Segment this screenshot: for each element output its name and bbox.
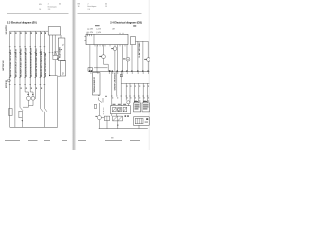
pin labels above y77 ticks — [10, 75, 46, 76]
F3 internal text — [134, 101, 149, 109]
wire R2 — [96, 45, 98, 73]
svg-text:14: 14 — [39, 9, 41, 11]
relay box K1 — [58, 38, 65, 61]
fuse box F2 — [19, 111, 22, 118]
svg-text:K1: K1 — [63, 44, 65, 46]
svg-text:2.3 Electrical diagram (EU): 2.3 Electrical diagram (EU) — [7, 20, 37, 24]
connector tick row y52.5 — [9, 52, 45, 54]
svg-text:A7: A7 — [113, 28, 115, 31]
dashed wire — [103, 108, 105, 115]
relay circle inside A4 — [118, 108, 121, 111]
coil circle Y5 — [127, 101, 130, 104]
Y3 label — [123, 58, 126, 59]
drop D5 — [142, 83, 144, 103]
A4 to X5 link — [111, 114, 113, 116]
motor M1 circle — [7, 79, 10, 82]
connector box X2 — [88, 68, 93, 72]
drop D4 — [138, 83, 140, 103]
control unit box A2 — [86, 34, 128, 44]
battery terminal mark — [146, 118, 148, 120]
A4 labels above — [113, 104, 127, 105]
switch S2 diagonal — [40, 108, 47, 127]
K2 divider — [117, 116, 119, 121]
wire from M4 — [99, 103, 104, 118]
X5 drop wire — [106, 121, 108, 129]
title subnote — [95, 25, 100, 26]
relay r2 — [118, 107, 122, 111]
bus pin labels — [90, 73, 149, 74]
svg-text:(+) 12V: (+) 12V — [87, 32, 94, 34]
link wire y67.8 — [94, 67, 108, 69]
connector mark X4 — [94, 105, 97, 109]
svg-text:15: 15 — [105, 6, 107, 8]
M3 drop wire — [107, 64, 109, 71]
connector box X5 — [104, 116, 109, 120]
pin labels y88 — [21, 88, 42, 89]
connector under bus — [120, 74, 122, 76]
M3 label — [99, 56, 102, 57]
K2 diagonals — [113, 116, 123, 121]
M2 label — [111, 48, 113, 49]
pin dash row y84.6 — [9, 84, 45, 86]
coil circle Y4 — [147, 58, 151, 62]
svg-text:2.4 Electrical diagram (GB): 2.4 Electrical diagram (GB) — [110, 20, 142, 24]
right page footer caption — [78, 137, 140, 141]
fuse box F3 — [134, 103, 141, 112]
svg-text:2.4: 2.4 — [88, 9, 90, 11]
svg-text:(+) 24V: (+) 24V — [87, 29, 94, 31]
tick row labels y97.6 — [112, 97, 149, 98]
A2 top pins — [120, 33, 123, 35]
drop D2 — [129, 83, 131, 103]
wire R10 — [131, 45, 133, 72]
wire number labels under bus — [10, 32, 46, 34]
A2 internal divider — [93, 34, 95, 44]
wire W3 — [19, 31, 21, 107]
link wire top right — [136, 40, 149, 42]
relay r3 — [123, 107, 127, 111]
svg-text:2: 2 — [88, 3, 89, 5]
bottom bus wire — [10, 126, 58, 128]
right header rule — [78, 12, 142, 14]
switch S3 — [99, 98, 104, 103]
aux marks near S3 — [98, 95, 107, 97]
fuse marks — [125, 115, 129, 116]
cluster labels above F3 F4 — [134, 100, 149, 103]
left page footer caption — [5, 139, 67, 142]
svg-text:KEY SWITCH CIRCUIT 15 IGNITION: KEY SWITCH CIRCUIT 15 IGNITION ON — [15, 49, 17, 77]
K1 corner tick — [57, 58, 58, 60]
left header rule — [7, 12, 69, 14]
fuse box F4 — [142, 103, 150, 112]
solenoid coil Y2 — [31, 96, 35, 100]
wire W4 — [24, 31, 26, 92]
X1 bottom link wire — [58, 75, 61, 77]
connector tick row y47 — [9, 46, 45, 48]
X5 inner tick — [106, 116, 108, 120]
wire R12 — [142, 41, 144, 71]
connector tick row y77 with labels — [9, 76, 45, 78]
battery cells — [137, 118, 141, 123]
solenoid coil Y1 — [26, 96, 30, 100]
coil circle Y3 — [126, 57, 130, 61]
bus tick marks — [89, 70, 149, 72]
battery label — [145, 121, 148, 124]
wire S-R2 — [116, 71, 118, 95]
wire R9 lower — [127, 61, 129, 71]
wire into A4 — [120, 83, 122, 105]
arrow head 2 — [117, 125, 119, 127]
Y5 lower link — [127, 104, 129, 106]
M4 bottom wire — [98, 120, 100, 129]
K2 drop wire — [117, 121, 119, 129]
wire W2 — [14, 31, 16, 127]
branch wire x51 — [50, 53, 58, 76]
aux box A3 — [131, 37, 136, 45]
drop D6 — [147, 83, 149, 103]
wire W8 — [43, 31, 45, 108]
pump circle M2 — [113, 47, 117, 51]
switch S1 diagonal — [20, 107, 23, 127]
K1 left pin line — [54, 51, 58, 53]
ground wire bottom — [99, 128, 148, 130]
svg-text:60: 60 — [59, 4, 61, 6]
battery drop wire — [138, 125, 140, 128]
pump circle M4 — [97, 116, 101, 120]
battery G1 box — [135, 118, 143, 123]
A4 to K2 link — [116, 114, 118, 116]
svg-text:X12: X12 — [62, 72, 64, 75]
junction dot — [49, 75, 50, 76]
A2 inner pins — [88, 34, 92, 36]
wire W5 — [29, 31, 31, 92]
svg-text:60: 60 — [105, 3, 107, 5]
wire R1 — [89, 45, 91, 71]
wire R9 — [126, 45, 128, 58]
terminal box X3 — [93, 73, 101, 96]
K1 terminal dot — [61, 49, 62, 50]
svg-text:2.3: 2.3 — [48, 9, 50, 11]
M3 link wire — [104, 63, 109, 65]
fuse box F1 — [9, 109, 13, 116]
relay box K2 — [113, 116, 123, 121]
relay board box A4 — [111, 106, 131, 114]
wire R8 — [121, 45, 123, 72]
sub bus — [121, 82, 149, 84]
wire S-R3 — [120, 71, 122, 83]
svg-text:(-) 0V: (-) 0V — [97, 29, 102, 31]
wire W1 — [9, 31, 11, 127]
component labels (vertical) along wires — [9, 48, 47, 77]
M4 label — [95, 116, 97, 117]
arrow head — [22, 120, 24, 122]
sub-bus drop labels — [127, 86, 149, 87]
battery cluster outer box — [134, 117, 150, 126]
wire R3 lower — [103, 58, 105, 64]
A1 bottom stubs — [49, 35, 61, 55]
A2 bottom pin comb — [95, 45, 125, 47]
right page edge shade — [149, 0, 150, 150]
terminal block X1 — [61, 61, 66, 77]
wire W6 — [34, 31, 36, 99]
svg-text:2: 2 — [48, 4, 49, 6]
relay diagonals — [113, 107, 127, 111]
svg-text:(-) 0V: (-) 0V — [97, 32, 102, 34]
wire R6 — [114, 51, 116, 72]
wire S-R1 — [111, 71, 113, 105]
wire R13 — [147, 41, 149, 57]
right rail wire — [57, 76, 59, 127]
svg-text:16: 16 — [78, 6, 80, 8]
A2 left pins — [84, 32, 87, 41]
spine shadow between pages — [72, 0, 77, 150]
coil labels — [27, 94, 33, 95]
wire W7 — [39, 31, 41, 108]
Y4 label — [144, 59, 147, 60]
subnote A1 — [133, 25, 136, 26]
wire R3 — [103, 45, 105, 55]
top bus wire — [10, 30, 49, 32]
tick row y96 — [111, 95, 148, 97]
wire R13 lower — [147, 61, 149, 71]
relay r1 — [113, 107, 117, 111]
diode box V1 — [53, 55, 58, 59]
V1 top stubs — [54, 53, 56, 55]
pin labels y53.6 — [10, 54, 46, 55]
wire R11 — [137, 41, 139, 71]
drop D1 — [125, 83, 127, 100]
coil branch wires — [23, 92, 33, 107]
Y3 dot — [128, 59, 129, 60]
drop D3 — [133, 83, 135, 103]
motor circle M3 — [102, 55, 106, 59]
connector bus row — [88, 70, 150, 72]
control unit box A1 — [48, 27, 60, 35]
wire R7 — [116, 45, 118, 72]
